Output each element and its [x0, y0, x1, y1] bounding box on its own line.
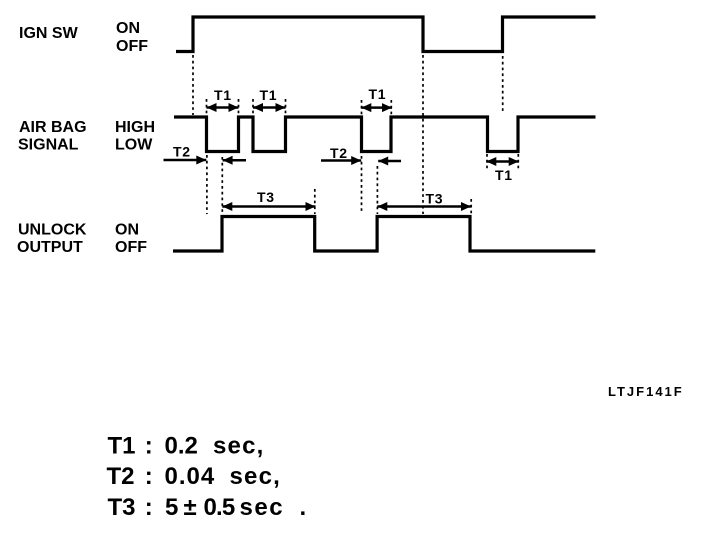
- svg-text:T1:0.2sec,: T1:0.2sec,: [108, 433, 265, 460]
- dotted line airbag rise 1: [238, 99, 240, 116]
- svg-text:LTJF141F: LTJF141F: [608, 384, 684, 399]
- dotted line airbag fall 1 upper: [206, 99, 208, 116]
- wire UNLOCK OUTPUT waveform: [173, 217, 595, 252]
- dotted line airbag fall 1 lower: [206, 155, 208, 214]
- dotted line airbag fall 4: [486, 154, 488, 171]
- svg-text:ON: ON: [116, 20, 140, 37]
- svg-text:LOW: LOW: [115, 137, 153, 154]
- arrow T2 first left: [223, 156, 246, 165]
- svg-text:T3: T3: [257, 189, 275, 205]
- svg-text:T1: T1: [214, 87, 232, 103]
- svg-text:UNLOCK: UNLOCK: [18, 222, 87, 239]
- dotted line unlock rise 1: [221, 157, 223, 214]
- svg-text:T3: T3: [426, 191, 444, 207]
- dotted line IGN rise 2: [502, 56, 504, 114]
- svg-text:OUTPUT: OUTPUT: [17, 239, 83, 256]
- arrow T2 first right: [164, 156, 207, 165]
- dotted line IGN fall: [422, 55, 424, 214]
- wire IGN SW waveform: [176, 17, 596, 52]
- arrow T1 second: [253, 103, 286, 112]
- svg-text:IGN SW: IGN SW: [19, 25, 79, 42]
- arrow T3 first: [222, 202, 315, 211]
- svg-text:T1: T1: [495, 167, 513, 183]
- arrow T1 fourth: [486, 157, 518, 166]
- arrow T2 second right: [321, 156, 361, 165]
- svg-text:AIR BAG: AIR BAG: [19, 119, 87, 136]
- dotted line T3-1 right tip: [314, 189, 316, 214]
- svg-text:T2: T2: [330, 145, 348, 161]
- svg-text:HIGH: HIGH: [115, 119, 155, 136]
- arrow T1 first: [207, 103, 239, 112]
- dotted line airbag rise 4: [517, 154, 519, 171]
- dotted line unlock rise 2: [376, 166, 378, 214]
- dotted line airbag fall 3 lower: [361, 156, 363, 214]
- svg-text:SIGNAL: SIGNAL: [18, 137, 79, 154]
- arrow T3 second: [377, 202, 471, 211]
- dotted line IGN rise 1: [192, 55, 194, 115]
- svg-text:T2:0.04sec,: T2:0.04sec,: [107, 463, 282, 490]
- svg-text:T1: T1: [260, 87, 278, 103]
- svg-text:OFF: OFF: [115, 239, 147, 256]
- svg-text:T1: T1: [369, 86, 387, 102]
- svg-text:T2: T2: [173, 144, 191, 160]
- arrow T2 second left: [378, 157, 401, 166]
- dotted line T3-2 right tip: [470, 199, 472, 215]
- dotted line airbag rise 3: [390, 100, 392, 116]
- svg-text:ON: ON: [115, 222, 139, 239]
- dotted line airbag fall 2: [252, 99, 254, 116]
- arrow T1 third: [361, 103, 392, 112]
- dotted line airbag rise 2: [285, 99, 287, 116]
- svg-text:OFF: OFF: [116, 38, 148, 55]
- wire AIR BAG SIGNAL waveform: [174, 117, 596, 152]
- dotted line airbag fall 3 upper: [361, 100, 363, 116]
